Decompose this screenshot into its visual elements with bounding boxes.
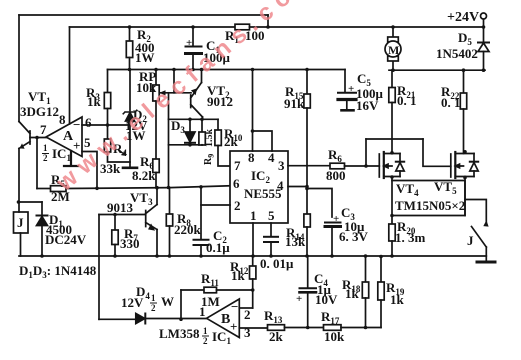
wire pin5 drop xyxy=(270,223,272,236)
svg-text:1: 1 xyxy=(199,304,206,319)
wire pin2 stub xyxy=(201,204,230,206)
wire R21 to VT4 drain xyxy=(391,103,393,154)
svg-text:+: + xyxy=(296,293,302,305)
svg-text:TM15N05×2: TM15N05×2 xyxy=(395,198,465,213)
svg-text:5: 5 xyxy=(268,208,275,223)
resistor R22 xyxy=(460,93,466,109)
wire left drop to VT1 collector xyxy=(18,15,20,122)
wire VT3 emitter down xyxy=(156,230,158,257)
wire VT3 collector up xyxy=(156,188,158,205)
capacitor 0.01u xyxy=(264,236,278,238)
svg-text:−: − xyxy=(231,299,238,314)
wire C1 top xyxy=(192,27,194,46)
svg-text:3: 3 xyxy=(244,325,251,340)
capacitor C4 xyxy=(300,287,317,289)
svg-text:2k: 2k xyxy=(224,134,239,149)
resistor R7 xyxy=(114,215,116,231)
motor M leads xyxy=(392,27,394,70)
resistor R11 xyxy=(181,289,204,291)
svg-text:330: 330 xyxy=(120,236,140,251)
wire pin2 stub B xyxy=(239,307,252,309)
transistor VT1 xyxy=(19,122,30,149)
mosfet VT4 xyxy=(378,154,380,177)
wire H2 right part xyxy=(250,26,484,28)
wire VT5 source down / box right xyxy=(464,177,466,216)
wire C3 branch xyxy=(307,189,332,218)
svg-text:2: 2 xyxy=(234,198,241,213)
svg-text:91k: 91k xyxy=(284,96,305,111)
box around VT4 VT5 xyxy=(392,181,465,216)
wire R3-R4 link xyxy=(107,109,109,140)
wire R22 to VT5 drain xyxy=(463,109,465,154)
body diode VT5 xyxy=(473,154,475,177)
svg-text:3: 3 xyxy=(278,158,285,173)
resistor R9 xyxy=(201,119,203,132)
svg-text:J: J xyxy=(17,215,24,230)
svg-text:1. 3m: 1. 3m xyxy=(395,230,426,245)
transistor VT2 xyxy=(191,83,203,118)
wire C1 bottom xyxy=(192,55,194,70)
svg-text:8: 8 xyxy=(248,150,255,165)
diode D5 xyxy=(483,19,485,42)
svg-text:800: 800 xyxy=(326,168,346,183)
resistor R19 xyxy=(380,257,382,283)
svg-text:9013: 9013 xyxy=(107,200,134,215)
svg-text:B: B xyxy=(221,312,230,327)
resistor R14 xyxy=(304,214,310,227)
svg-text:+24V: +24V xyxy=(447,10,479,25)
svg-text:2k: 2k xyxy=(269,329,284,344)
relay contact arrow xyxy=(484,222,488,227)
svg-text:2: 2 xyxy=(244,307,251,322)
resistor R4 xyxy=(104,139,110,152)
potentiometer RP xyxy=(153,85,159,101)
svg-text:+: + xyxy=(348,83,354,95)
svg-text:+: + xyxy=(230,319,237,334)
wire pin1 ground xyxy=(252,223,254,256)
svg-text:DC24V: DC24V xyxy=(45,232,87,247)
svg-text:1.5k: 1.5k xyxy=(204,129,215,148)
svg-text:+: + xyxy=(73,138,80,153)
diode D3 xyxy=(189,119,191,132)
op-amp A triangle xyxy=(46,117,82,157)
wire VT1 base to opamp A xyxy=(30,137,46,139)
wire pin4 stub xyxy=(288,186,307,188)
wire H1 corner down to H2 xyxy=(267,15,269,27)
svg-text:+: + xyxy=(333,213,339,225)
resistor R15 xyxy=(304,94,310,108)
wire VT4 source down / box left xyxy=(391,177,393,216)
wire R22 top xyxy=(463,70,465,93)
resistor R10 xyxy=(217,119,219,130)
svg-text:1k: 1k xyxy=(390,292,405,307)
svg-text:1: 1 xyxy=(43,143,48,153)
wire RP bottom to R6 xyxy=(155,101,157,159)
svg-text:0. 01μ: 0. 01μ xyxy=(260,256,294,271)
resistor R18 xyxy=(365,256,367,282)
wire C2 column xyxy=(200,187,202,239)
wire V2 base-collector column xyxy=(168,93,170,188)
wire ground rail bottom xyxy=(19,255,486,257)
wire pin3 out xyxy=(288,165,330,167)
ground under op-amp A xyxy=(64,151,78,166)
svg-text:16V: 16V xyxy=(356,98,379,113)
wire R3 chain top corner xyxy=(107,70,109,93)
svg-text:0. 1: 0. 1 xyxy=(441,95,461,110)
wire R21 top xyxy=(391,70,393,87)
wire Vcc drop to jumper xyxy=(252,70,254,132)
R4 arrow mark xyxy=(119,150,125,155)
capacitor C2 xyxy=(194,239,209,241)
svg-text:2: 2 xyxy=(203,336,208,346)
wire H5 to NE555 pin6 xyxy=(66,186,230,189)
svg-text:2: 2 xyxy=(43,153,48,163)
wire top-left rail H1 xyxy=(19,14,268,16)
terminal +24V xyxy=(481,13,487,19)
wire D2 bottom xyxy=(129,122,131,168)
wire H2 +24V rail xyxy=(70,26,236,28)
svg-text:1W: 1W xyxy=(135,50,155,65)
svg-text:W: W xyxy=(161,294,174,309)
zener D2 xyxy=(126,113,135,122)
wire y119 node xyxy=(169,118,219,120)
wire contact to ground xyxy=(485,247,487,261)
relay contact blade xyxy=(472,227,487,248)
wire VT2 emitter up xyxy=(201,70,203,83)
resistor R3 xyxy=(104,93,110,109)
capacitor C1 xyxy=(186,46,202,48)
wire RP top xyxy=(155,70,157,86)
motor M circle xyxy=(385,41,401,57)
svg-text:4: 4 xyxy=(268,150,275,165)
resistor R12 xyxy=(252,256,254,266)
capacitor C5 xyxy=(338,92,356,94)
ground bar under C5 xyxy=(342,109,354,112)
svg-text:220k: 220k xyxy=(174,222,202,237)
resistor R5 xyxy=(51,186,67,192)
wire H5 rail R5 feedback xyxy=(37,188,51,190)
svg-text:1k: 1k xyxy=(345,286,360,301)
zener D4 xyxy=(136,314,145,324)
wire y145 node xyxy=(169,144,203,146)
wire R4 bottom corner to ground node xyxy=(108,152,131,162)
wire D4 row xyxy=(99,318,136,320)
svg-text:10k: 10k xyxy=(324,329,345,344)
wire rail B motor supply xyxy=(389,69,485,71)
svg-text:LM358: LM358 xyxy=(159,326,200,341)
svg-text:−: − xyxy=(73,117,80,132)
wire R6 bottom xyxy=(155,173,157,188)
resistor R6 xyxy=(153,159,159,173)
wire R2 top drop xyxy=(129,27,131,41)
wire VT2 collector down xyxy=(202,117,204,119)
svg-text:1: 1 xyxy=(151,293,156,303)
ground bar under D2 node xyxy=(123,167,137,170)
svg-text:1k: 1k xyxy=(87,94,102,109)
wire R11 riser xyxy=(180,290,182,319)
relay J box xyxy=(14,212,29,233)
svg-text:10V: 10V xyxy=(315,292,338,307)
svg-text:8.2k: 8.2k xyxy=(132,168,156,183)
wire RP wiper arrow xyxy=(161,92,192,94)
svg-text:1N5402: 1N5402 xyxy=(436,46,478,61)
resistor R21 xyxy=(389,88,395,103)
mosfet VT5 xyxy=(450,154,452,177)
wire C4 column xyxy=(307,256,309,288)
wire wiper tie to rail xyxy=(173,70,175,93)
svg-text:M: M xyxy=(388,43,399,57)
resistor R17 xyxy=(324,325,342,331)
wire VT3 base left xyxy=(99,214,146,216)
resistor R2 xyxy=(126,41,132,58)
resistor R8 xyxy=(169,188,171,215)
wire R15-R14 column xyxy=(306,108,308,214)
wire J box leads xyxy=(19,202,21,256)
wire relay node horiz xyxy=(19,201,42,203)
wire opamp pin5 stub xyxy=(82,152,97,189)
wire node drop to R5 xyxy=(36,138,38,189)
wire pin8-pin4 jumper xyxy=(253,131,273,151)
wire pin8 drop xyxy=(69,27,71,124)
capacitor C3 xyxy=(325,222,341,224)
wire to VT4 gate xyxy=(345,165,380,167)
wire rail A 12V xyxy=(108,69,346,71)
svg-text:9012: 9012 xyxy=(207,94,233,109)
svg-text:13k: 13k xyxy=(285,234,306,249)
wire VT1 emitter down xyxy=(18,149,20,203)
svg-text:1k: 1k xyxy=(231,268,246,283)
wire R10 to pin7 xyxy=(218,146,230,167)
wire pin3 row xyxy=(239,327,267,329)
ground bar right xyxy=(477,261,495,264)
svg-text:0. 1: 0. 1 xyxy=(397,93,417,108)
wire D2 top xyxy=(129,70,131,111)
wire C5 bottom stub xyxy=(346,101,348,109)
wire to relay contact xyxy=(465,200,486,223)
diode D1 xyxy=(41,202,43,256)
svg-text:+: + xyxy=(186,37,192,49)
svg-text:6: 6 xyxy=(85,115,92,130)
wire R2 bottom xyxy=(129,58,131,70)
transistor VT3 xyxy=(146,205,157,230)
svg-text:8: 8 xyxy=(59,112,66,127)
motor M brushes xyxy=(388,37,399,42)
svg-text:7: 7 xyxy=(40,122,47,137)
wire D4 column from VT3 base xyxy=(98,215,100,320)
svg-text:3DG12: 3DG12 xyxy=(20,104,59,119)
svg-text:6: 6 xyxy=(233,176,240,191)
svg-text:1: 1 xyxy=(203,326,208,336)
svg-text:0.1μ: 0.1μ xyxy=(206,240,230,255)
IC NE555 box xyxy=(230,151,288,223)
wire gate link riser xyxy=(365,139,367,166)
body diode VT4 xyxy=(399,154,401,177)
resistor R20 xyxy=(391,216,393,225)
wire gate link down to VT5 xyxy=(423,139,451,166)
resistor R1 xyxy=(235,24,250,30)
svg-text:12V: 12V xyxy=(121,295,144,310)
wire R15 top xyxy=(306,70,308,95)
svg-text:2: 2 xyxy=(151,303,156,313)
resistor R13 xyxy=(268,325,285,331)
capacitor C5 corner drop xyxy=(344,70,346,93)
wire opamp pin6 stub xyxy=(82,124,130,126)
svg-text:4: 4 xyxy=(277,178,284,193)
svg-text:7: 7 xyxy=(234,158,241,173)
svg-text:J: J xyxy=(467,233,474,248)
resistor R16 800 xyxy=(330,163,345,169)
op-amp B triangle xyxy=(207,299,240,338)
svg-text:1: 1 xyxy=(250,208,257,223)
svg-text:6. 3V: 6. 3V xyxy=(339,229,369,244)
wire gate link top xyxy=(366,138,423,140)
